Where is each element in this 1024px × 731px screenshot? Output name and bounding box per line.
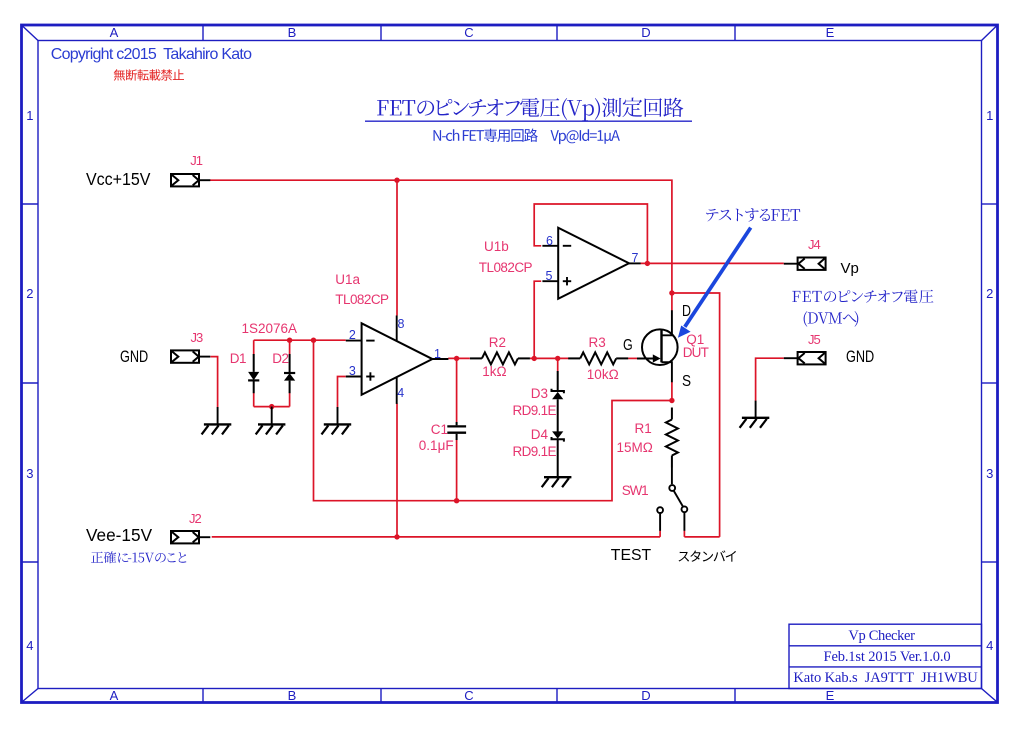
label J2 [189,512,201,525]
node junction pin5 drop [532,356,537,361]
node junction feedback/pin2 [311,338,316,343]
title block box [789,624,982,688]
op-amp U1b output pin stub [629,262,641,264]
title block row 3: author [793,671,977,686]
pin number 4 [397,387,404,400]
zener diode D3 [557,371,559,392]
wire D1-D2 bottom rail [254,406,290,408]
label U1b TL082CP [479,261,532,275]
op-amp U1b body [558,228,629,299]
wire D2 bottom lead [289,393,291,407]
connector J3 [171,350,199,362]
op-amp U1a pin4 stub [396,377,398,404]
row label 2 right [986,287,993,300]
title underline [365,120,692,122]
column label A bottom [110,689,119,702]
label R2 [489,336,506,350]
ground below D1 D2 [271,407,273,424]
pin number 8 [398,318,405,331]
wire U1b pin5 to R2/R3 node [534,281,541,358]
connector J5 [798,352,826,364]
transistor Q1 JFET [642,329,678,365]
label C1 [431,423,448,437]
label GND right [846,349,874,366]
wire C1 top lead [456,358,458,422]
column label A top [110,26,119,39]
wire D3 top stub [557,358,559,371]
node junction pin4/Vee rail [394,534,399,539]
wire D2 top lead [289,340,291,354]
column label E bottom [826,689,835,702]
resistor R3 [568,357,580,359]
wire D1 top lead [253,340,255,354]
no-reproduction notice (red) [114,69,184,81]
label SW1 [622,484,648,498]
label: standby [679,550,737,561]
connector J4 [798,258,826,270]
op-amp U1a body [362,323,433,395]
subtitle [434,129,620,145]
title block row 1: Vp Checker [848,629,914,644]
capacitor C1 [456,422,458,425]
wire standby terminal to right rail [684,536,719,538]
ground below D4 [544,476,571,478]
column label C bottom [464,689,473,702]
frame row ticks right [982,203,998,205]
column label D top [641,26,650,39]
label GND left [120,349,148,366]
label D1 [230,352,246,366]
label U1a TL082CP [335,293,388,307]
label R2 value 1k&#937; [482,365,506,379]
column label E top [826,26,835,39]
wire U1b feedback loop [534,204,647,263]
ground below J3 [217,407,219,424]
label U1a [335,273,360,287]
column label C top [464,26,473,39]
wire J5 to ground [756,358,784,401]
node junction U1b output/feedback [645,261,650,266]
node junction D3 top [555,356,560,361]
node junction Vcc/pin8 [394,178,399,183]
op-amp U1a output pin stub [432,358,448,360]
label Vee-15V [86,527,152,544]
label R3 value 10k&#937; [587,368,619,382]
pin number 7 [632,252,639,265]
wire TEST terminal riser [659,531,661,537]
wire U1b output to J4 [640,262,783,264]
wire pin2 input rail [254,339,346,341]
wire R1 bottom to switch [671,468,673,485]
node junction source/R1 [669,398,674,403]
label J4 [808,238,820,251]
wire U1a pin3 to ground [338,377,346,408]
label D3 value RD9.1E [513,404,556,418]
label S source [682,374,691,390]
label R1 [635,422,652,436]
wire drain node to standby rail [672,293,720,537]
arrow to DUT [685,228,751,327]
label TEST [611,548,651,564]
switch SW1 [669,485,675,491]
label R1 value 15M&#937; [617,441,653,455]
label R3 [589,336,606,350]
pin number 3 [349,365,356,378]
wire J3 to ground [211,357,218,408]
row label 1 left [26,109,33,122]
row label 2 left [26,287,33,300]
annotation: FET pinch-off voltage [792,289,933,303]
pin number 1 [434,348,441,361]
label D2 [272,352,288,366]
copyright line [51,47,251,63]
column label D bottom [641,689,650,702]
ground below J5 [755,401,757,418]
label J1 [190,154,202,167]
label D4 [531,428,548,442]
diode D2 [289,354,291,373]
wire U1a output segment [448,357,470,359]
node junction C1 bottom [454,498,459,503]
label Vp [841,261,859,276]
label Q1 [686,333,704,347]
label Vcc+15V [86,171,150,188]
wire Vee rail J2 to TEST terminal [212,536,660,538]
annotation: test FET [706,208,800,221]
row label 3 right [986,467,993,480]
connector J1 [171,174,199,186]
column label B top [288,26,297,39]
label D drain [682,304,691,320]
annotation: to DVM [804,311,859,327]
label J5 [808,333,820,346]
label DUT [683,346,708,360]
label U1b [484,240,509,254]
label G gate [623,338,633,354]
label D4 value RD9.1E [513,445,556,459]
wire feedback loop big [314,340,672,501]
frame column ticks bottom [202,689,204,703]
wire drain stub red [671,293,673,311]
frame corner diagonals [23,26,39,41]
wire D1 bottom lead [253,393,255,407]
pin number 5 [546,270,553,283]
pin number 2 [349,329,356,342]
schematic title [377,98,683,121]
frame column ticks top [202,25,204,41]
row label 4 left [26,639,33,652]
label C1 value 0.1uF [419,439,454,453]
row label 4 right [986,639,993,652]
wire Vcc rail J1 to drain column [210,180,672,293]
label J3 [191,331,203,344]
ground below U1a pin3 [337,407,339,424]
row label 3 left [26,467,33,480]
label D3 [531,387,548,401]
op-amp U1a pin8 stub [396,316,398,342]
connector J2 [171,531,199,543]
zener diode D4 [552,431,563,438]
wire U1a pin4 down [396,404,398,537]
node junction drain [669,290,674,295]
wire R2 right to R3 left [530,357,569,359]
annotation: must be exactly -15V [91,551,186,563]
frame row ticks left [22,203,39,205]
resistor R2 [470,357,482,359]
label 1S2076A [242,322,298,336]
wire U1a pin8 to Vcc rail [396,180,398,315]
title block row 2: date/version [824,650,951,665]
wire C1 bottom lead [456,440,458,501]
node junction diode ground [269,404,274,409]
diode D1 [253,354,255,372]
wire standby terminal riser [683,531,685,537]
node junction D2 top [287,338,292,343]
wire FET source red [671,382,673,401]
row label 1 right [986,109,993,122]
wire R3 to gate [628,357,637,359]
column label B bottom [288,689,297,702]
pin number 6 [546,235,553,248]
node junction C1 top [454,356,459,361]
resistor R1 [671,408,673,420]
